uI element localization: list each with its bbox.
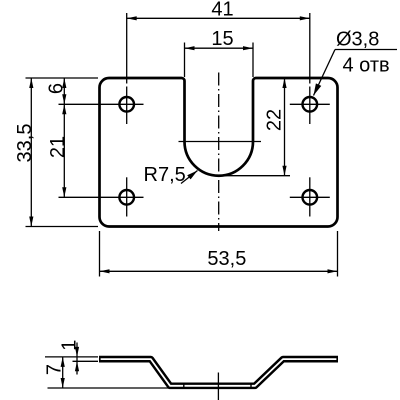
extension line notch bottom for dim 22 xyxy=(222,175,290,177)
svg-text:21: 21 xyxy=(47,136,69,158)
extension lines for dim 15 (notch edges) xyxy=(184,43,186,78)
bend tangent tick left xyxy=(183,384,185,388)
dimension 53,5 xyxy=(100,248,338,273)
svg-text:53,5: 53,5 xyxy=(207,248,246,270)
crosshair vertical hole bottom-right xyxy=(309,177,311,216)
svg-text:Ø3,8: Ø3,8 xyxy=(336,29,379,51)
crosshair horizontal hole top-right xyxy=(290,103,330,105)
bend tangent tick right xyxy=(250,384,252,388)
extension line top surface (side view) xyxy=(45,356,98,358)
svg-text:15: 15 xyxy=(211,28,233,50)
crosshair vertical hole top-right / extension for dim 41 xyxy=(309,13,311,84)
svg-text:41: 41 xyxy=(211,0,233,21)
hole top-right xyxy=(303,97,318,112)
centerline horizontal through notch arc center xyxy=(179,141,262,143)
svg-text:6: 6 xyxy=(46,83,68,94)
label D3,8 4 otv with leader xyxy=(314,29,398,96)
svg-text:7: 7 xyxy=(44,364,66,375)
dimension 33,5 xyxy=(14,78,36,227)
dimension 1 (sheet thickness) xyxy=(59,340,81,375)
dimension 15 xyxy=(185,28,254,50)
extension lines bottom for dim 53,5 xyxy=(99,231,101,277)
extension lines left for dim 33,5 xyxy=(26,77,99,79)
svg-text:1: 1 xyxy=(59,340,81,351)
hole bottom-right xyxy=(303,190,318,205)
plate outline (top view) xyxy=(100,78,338,227)
side view centerline xyxy=(217,373,219,400)
centerline vertical (top view symmetry axis) xyxy=(218,73,220,232)
side view profile (bent sheet cross-section) xyxy=(99,359,338,386)
extension line profile bottom (for dim 7) xyxy=(48,387,169,389)
svg-text:4 отв: 4 отв xyxy=(343,54,390,76)
dimension 22 xyxy=(264,78,287,176)
dimension 41 xyxy=(127,0,310,21)
svg-text:22: 22 xyxy=(264,109,286,131)
crosshair vertical hole top-left / extension for dim 41 xyxy=(126,13,128,84)
hole top-left xyxy=(119,97,134,112)
dimension 21 xyxy=(47,104,69,197)
label R7,5 with leader xyxy=(144,164,198,186)
crosshair horizontal hole top-left / extension for dims 6,21 xyxy=(59,103,144,105)
extension line sheet bottom (for dim 1) xyxy=(73,360,99,362)
svg-text:R7,5: R7,5 xyxy=(144,164,186,186)
crosshair horizontal hole bottom-left / extension for dim 21 xyxy=(59,196,144,198)
hole bottom-left xyxy=(119,190,134,205)
dimension 6 xyxy=(46,78,68,104)
crosshair horizontal hole bottom-right xyxy=(290,196,330,198)
dimension 7 (profile height) xyxy=(44,357,66,388)
crosshair vertical hole bottom-left xyxy=(126,177,128,216)
svg-text:33,5: 33,5 xyxy=(14,124,36,163)
